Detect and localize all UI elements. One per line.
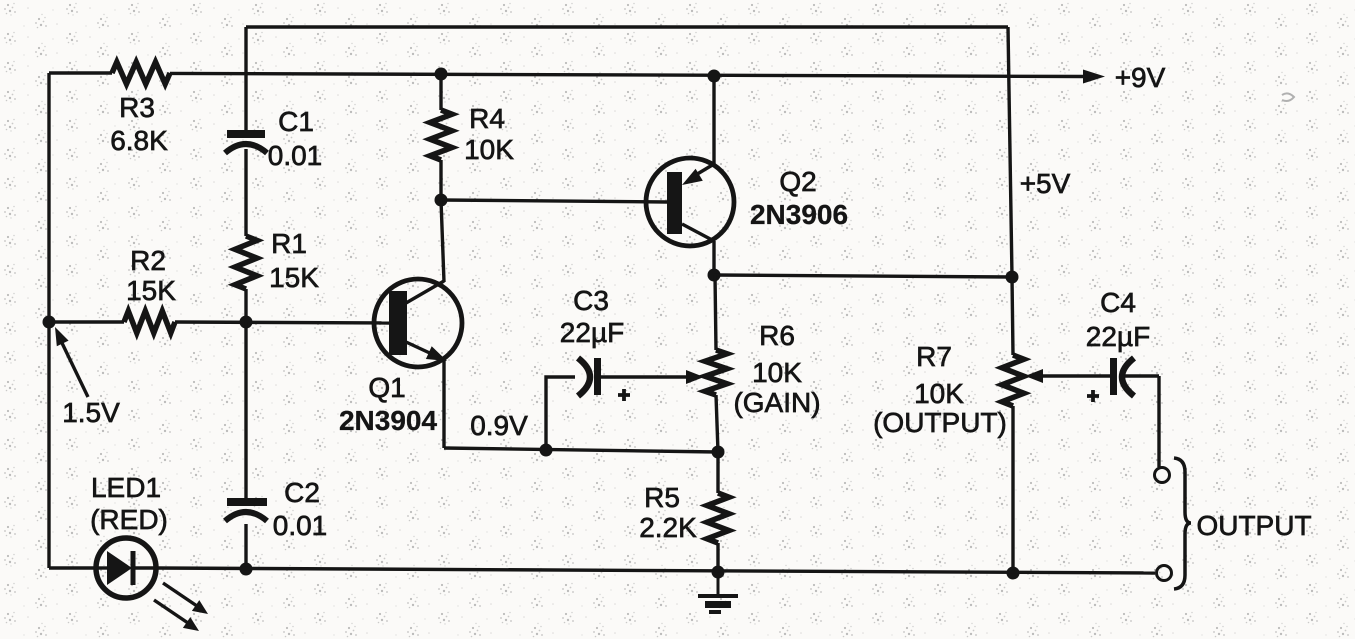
wire Q2 collector down [712, 241, 715, 275]
svg-text:22µF: 22µF [1086, 321, 1150, 352]
capacitor C2 [225, 502, 267, 521]
svg-text:(OUTPUT): (OUTPUT) [873, 407, 1007, 438]
node C2 bottom dot [240, 563, 253, 576]
svg-text:2.2K: 2.2K [639, 512, 697, 543]
wire R5 bottom [716, 543, 719, 572]
wire C3 to R6 [601, 375, 688, 378]
svg-text:R6: R6 [759, 320, 795, 351]
wire C3 branch [546, 377, 575, 450]
wire left rail [47, 73, 50, 568]
svg-text:C4: C4 [1100, 287, 1136, 318]
svg-text:0.9V: 0.9V [470, 410, 528, 441]
wire Q1 emitter down [442, 359, 445, 448]
wire +5V vertical [1008, 27, 1012, 277]
wire base row right [175, 322, 390, 323]
wire C1 to R1 [244, 149, 247, 236]
arrowhead R6 wiper [686, 370, 704, 384]
wire C2 branch top [244, 322, 247, 499]
svg-text:10K: 10K [914, 378, 964, 409]
svg-text:0.01: 0.01 [268, 140, 323, 171]
capacitor C3 [578, 358, 598, 396]
node R7 top dot [1006, 271, 1019, 284]
wire R4 bottom [439, 160, 442, 200]
wire collector row [714, 275, 1012, 277]
wire R5 top [716, 452, 719, 493]
svg-text:Q1: Q1 [368, 372, 405, 403]
svg-text:C3: C3 [573, 285, 609, 316]
svg-text:+9V: +9V [1115, 62, 1166, 93]
wire 0.9V row [444, 448, 718, 452]
arrowhead +9V [1083, 70, 1105, 84]
node Q2 emitter rail dot [708, 70, 721, 83]
resistor R4 [430, 110, 452, 160]
transistor Q2 [646, 158, 734, 246]
svg-text:10K: 10K [464, 134, 514, 165]
wire C2 bottom [244, 524, 247, 568]
node C3 branch dot [540, 444, 553, 457]
wire R7 wiper to C4 [1041, 374, 1110, 377]
wire top rail [246, 25, 1008, 28]
capacitor C4 [1114, 358, 1135, 396]
svg-text:C2: C2 [284, 477, 320, 508]
node R4/Q2 base dot [435, 194, 448, 207]
svg-text:2N3906: 2N3906 [750, 199, 848, 230]
brace output [1174, 458, 1191, 589]
arrowhead R7 wiper [1025, 369, 1043, 383]
transistor Q1 [374, 279, 462, 367]
node R7 bottom dot [1007, 567, 1020, 580]
node R1/R2/C2 dot [240, 316, 253, 329]
svg-text:R1: R1 [271, 228, 307, 259]
resistor R3 [112, 62, 170, 84]
arrow LED light 2 [154, 600, 199, 631]
node R6/R5 dot [712, 446, 725, 459]
svg-text:1.5V: 1.5V [62, 397, 120, 428]
wire bottom rail left [49, 566, 96, 569]
wire Q1 collector vertical [441, 200, 444, 282]
wire Q2 emitter top [712, 76, 715, 164]
ground [698, 572, 738, 612]
arrow 1.5V pointer [55, 327, 88, 397]
svg-text:R3: R3 [119, 92, 155, 123]
wire R7 bottom [1011, 406, 1014, 573]
svg-text:22µF: 22µF [560, 317, 624, 348]
terminal output lower [1157, 566, 1172, 581]
resistor R1 [235, 236, 257, 289]
svg-text:15K: 15K [126, 275, 176, 306]
svg-text:0.01: 0.01 [273, 510, 328, 541]
node R4 top dot [435, 68, 448, 81]
arrow LED light 1 [163, 583, 208, 614]
svg-text:OUTPUT: OUTPUT [1196, 510, 1311, 541]
node Q2 collector dot [708, 269, 721, 282]
wire R6 bottom [716, 395, 718, 452]
wire +9V rail right segment [170, 73, 1085, 76]
terminal output upper [1155, 468, 1170, 483]
svg-text:R7: R7 [916, 341, 952, 372]
LED LED1 [96, 538, 156, 598]
svg-text:+5V: +5V [1020, 168, 1071, 199]
wire C1 branch top [244, 27, 247, 131]
wire +9V rail left segment [49, 71, 112, 74]
resistor R2 [124, 311, 175, 333]
wire R4 branch top [439, 74, 442, 110]
svg-text:10K: 10K [752, 357, 802, 388]
speck marks [1282, 93, 1294, 101]
svg-text:R5: R5 [644, 482, 680, 513]
wire R6 top [715, 275, 716, 350]
svg-text:6.8K: 6.8K [110, 125, 168, 156]
label plus C4 [1087, 390, 1099, 402]
wire R1 bottom [244, 289, 247, 322]
capacitor C1 [225, 134, 267, 153]
svg-text:(RED): (RED) [90, 504, 168, 535]
svg-text:R2: R2 [130, 245, 166, 276]
svg-text:Q2: Q2 [779, 166, 816, 197]
svg-text:2N3904: 2N3904 [339, 405, 438, 436]
resistor R5 [707, 493, 729, 543]
wire base row left [49, 320, 124, 323]
svg-text:15K: 15K [269, 262, 319, 293]
node ground dot [712, 566, 725, 579]
potentiometer R7 [1002, 355, 1024, 406]
svg-text:LED1: LED1 [91, 472, 161, 503]
svg-text:(GAIN): (GAIN) [733, 387, 820, 418]
potentiometer R6 [705, 350, 727, 395]
wire bottom rail right [156, 568, 1155, 573]
svg-text:C1: C1 [278, 106, 314, 137]
wire Q2 base [441, 200, 667, 202]
svg-text:R4: R4 [469, 103, 505, 134]
wire R7 top [1012, 277, 1013, 355]
label plus C3 [618, 389, 630, 401]
node 1.5V dot [43, 316, 56, 329]
wire C4 to output [1124, 376, 1159, 467]
